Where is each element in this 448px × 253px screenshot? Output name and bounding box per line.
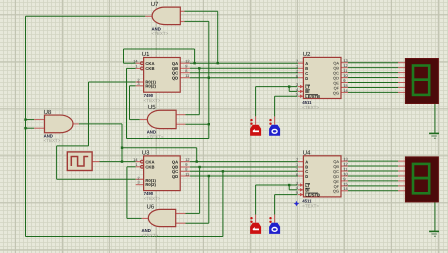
svg-text:U3: U3 [142,150,150,157]
svg-text:CKB: CKB [145,165,154,170]
svg-text:<TEXT>: <TEXT> [142,233,159,238]
svg-text:QG: QG [333,189,339,194]
svg-text:5: 5 [296,190,298,195]
svg-text:<TEXT>: <TEXT> [144,98,161,103]
svg-text:CKB: CKB [145,66,154,71]
svg-text:3: 3 [137,81,139,86]
svg-text:U4: U4 [303,149,311,156]
svg-text:QD: QD [172,174,178,179]
svg-text:U5: U5 [148,104,156,111]
svg-text:1: 1 [135,64,137,69]
svg-text:R0(2): R0(2) [145,182,156,187]
svg-text:R0(2): R0(2) [145,83,156,88]
svg-text:<TEXT>: <TEXT> [302,203,319,208]
svg-text:<TEXT>: <TEXT> [144,196,161,201]
svg-text:1: 1 [135,162,137,167]
svg-text:11: 11 [185,73,189,78]
svg-text:11: 11 [185,171,189,176]
svg-text:<TEXT>: <TEXT> [152,31,169,36]
svg-text:QD: QD [172,75,178,80]
svg-text:D: D [305,174,308,179]
svg-text:5: 5 [296,92,298,97]
svg-text:U1: U1 [142,51,150,58]
svg-text:6: 6 [296,172,298,177]
svg-text:<TEXT>: <TEXT> [302,105,319,110]
svg-text:U2: U2 [303,51,311,58]
svg-text:U6: U6 [147,203,155,210]
svg-text:6: 6 [296,73,298,78]
svg-text:QG: QG [333,90,339,95]
svg-text:D: D [305,76,308,81]
svg-text:U7: U7 [151,1,159,8]
svg-text:<TEXT>: <TEXT> [147,134,164,139]
svg-text:3: 3 [137,180,139,185]
svg-text:<TEXT>: <TEXT> [44,138,61,143]
svg-text:U8: U8 [44,109,52,116]
